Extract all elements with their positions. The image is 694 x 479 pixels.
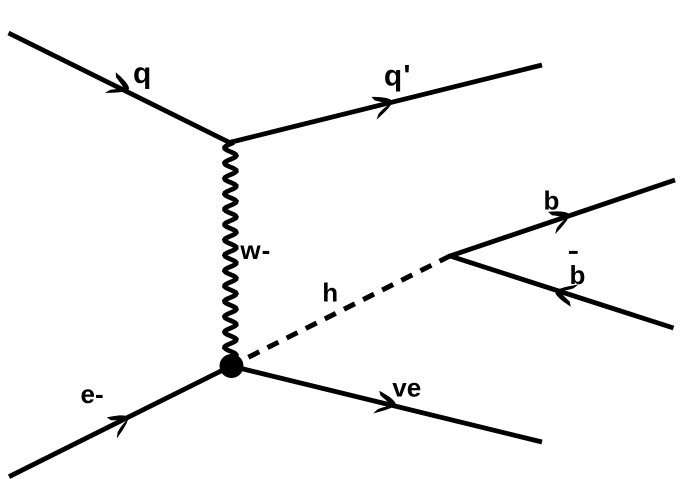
boson W- wavy propagator [225,143,237,361]
svg-text:h: h [322,278,338,308]
fermion line q' (outgoing quark) [230,65,543,143]
svg-text:b: b [570,260,586,290]
fermion line ve (outgoing neutrino) [231,366,542,442]
arrow on b-bar line [552,278,578,306]
fermion line b (outgoing b quark) [450,180,675,256]
fermion line e- (incoming electron) [9,366,231,477]
arrow on ve line [373,391,398,419]
arrow on b line [548,206,574,235]
arrow on q' line [371,92,396,120]
svg-text:q': q' [384,59,411,92]
higgs dashed propagator h [231,256,451,366]
svg-text:w-: w- [239,235,270,265]
svg-text:e-: e- [81,379,104,409]
fermion line q (incoming quark) [9,33,230,143]
fermion line b-bar (outgoing anti-b quark) [450,256,674,328]
svg-text:ve: ve [392,372,421,402]
vertex dot [220,354,244,378]
overbar of b-bar [569,251,578,254]
arrow on q line [105,72,133,102]
svg-text:q: q [133,57,151,90]
svg-text:b: b [544,186,560,216]
arrow on e- line [106,409,134,439]
